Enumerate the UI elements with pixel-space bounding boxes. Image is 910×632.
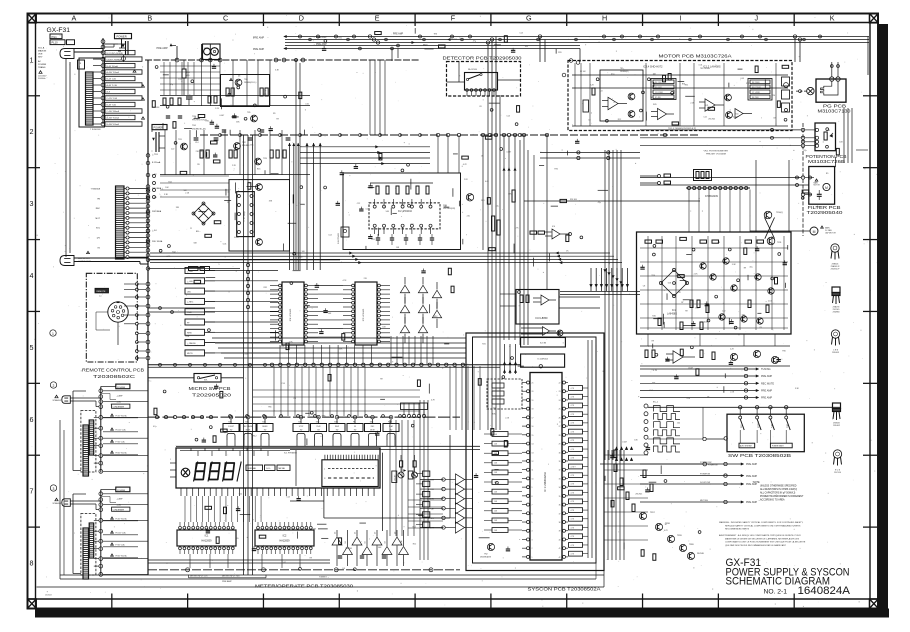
svg-text:31: 31 <box>559 461 561 463</box>
svg-text:R9: R9 <box>276 119 278 121</box>
svg-text:C22: C22 <box>171 148 174 150</box>
svg-text:MOTOR PCB M3103C726A: MOTOR PCB M3103C726A <box>659 53 733 58</box>
pg pcb box <box>816 79 846 102</box>
svg-text:2SA562-R: 2SA562-R <box>831 265 840 268</box>
syscon left small boxes <box>492 432 508 437</box>
svg-text:2: 2 <box>53 384 55 388</box>
pg pcb top pins <box>830 77 834 81</box>
svg-text:TR6: TR6 <box>651 275 655 277</box>
svg-text:C22: C22 <box>357 203 360 205</box>
capstan motor note <box>821 226 824 228</box>
svg-text:LA-B09+9608A(B): LA-B09+9608A(B) <box>107 58 123 61</box>
svg-text:RA 197094: RA 197094 <box>468 68 477 71</box>
svg-text:R9: R9 <box>197 164 199 166</box>
wires regulator cluster <box>160 95 310 97</box>
svg-text:REMOTE: REMOTE <box>97 291 107 293</box>
svg-text:D8: D8 <box>385 541 387 543</box>
svg-text:MUTE: MUTE <box>246 429 251 431</box>
svg-text:2SD663: 2SD663 <box>832 352 839 354</box>
svg-text:0.01: 0.01 <box>186 336 190 338</box>
svg-text:TR17: TR17 <box>650 512 655 514</box>
svg-text:2SD 1204A: 2SD 1204A <box>152 240 163 243</box>
svg-text:0.01: 0.01 <box>485 181 489 183</box>
grid tick bottom <box>338 594 340 609</box>
grid tick bottom <box>414 594 416 609</box>
display bottom pin comb <box>180 488 182 496</box>
wires y=201 right <box>524 200 700 202</box>
svg-text:C PLAY: C PLAY <box>428 507 435 510</box>
grid tick bottom <box>490 594 492 609</box>
corner registration mark <box>870 14 879 23</box>
svg-text:VDE: VDE <box>38 54 43 56</box>
svg-text:ALL CAPACITORS IN µF 50WV(J): ALL CAPACITORS IN µF 50WV(J) <box>760 492 795 495</box>
svg-text:37: 37 <box>559 513 561 515</box>
wires to bus 3 <box>103 493 148 495</box>
svg-text:7: 7 <box>532 505 533 507</box>
svg-text:C14: C14 <box>195 142 198 144</box>
svg-text:TRANS: TRANS <box>38 66 46 69</box>
svg-text:0.01: 0.01 <box>768 301 772 303</box>
component value annotations zone B1 <box>173 122 176 129</box>
svg-text:PRE AMP: PRE AMP <box>157 47 168 50</box>
extra wires regulator <box>160 65 220 67</box>
border band line top <box>28 22 879 24</box>
detector relay box <box>465 73 498 91</box>
filter warning note inside <box>815 179 818 181</box>
IC2 top resistors <box>376 186 379 194</box>
grid tick top <box>642 14 644 27</box>
scan black bar right <box>878 24 889 609</box>
driver IC4 <box>282 282 304 345</box>
IC2 outer box <box>343 173 461 250</box>
svg-text:14: 14 <box>532 444 534 446</box>
svg-text:C8: C8 <box>759 327 761 329</box>
syscon inner box <box>473 337 597 563</box>
motor transistor TR1 <box>628 93 635 100</box>
svg-text:SW PCB T20308502B: SW PCB T20308502B <box>728 453 791 458</box>
svg-text:C8: C8 <box>643 286 645 288</box>
svg-text:MUTING: MUTING <box>700 500 708 502</box>
svg-text:42: 42 <box>559 557 561 559</box>
svg-text:220: 220 <box>235 538 238 540</box>
svg-text:REC MUTE: REC MUTE <box>761 383 774 386</box>
grid tick top <box>338 14 340 27</box>
svg-text:PRE AMP: PRE AMP <box>761 397 772 400</box>
svg-text:2SD880(B,P): 2SD880(B,P) <box>480 556 492 558</box>
transistor package 2SB632 <box>833 403 841 409</box>
svg-text:F8 6V 700mA: F8 6V 700mA <box>116 555 128 558</box>
wires filter <box>640 177 801 179</box>
syscon left entry wires <box>420 479 444 481</box>
motor resistor stack 2 <box>748 79 772 101</box>
svg-text:17: 17 <box>532 417 534 419</box>
wires below drivers <box>189 554 191 568</box>
svg-text:SOL A: SOL A <box>38 47 45 50</box>
svg-text:6: 6 <box>532 513 533 515</box>
svg-text:R1 10K: R1 10K <box>580 71 587 73</box>
bus junctions y=365 <box>270 363 273 366</box>
svg-text:2: 2 <box>532 548 533 550</box>
servo transistors <box>700 263 706 269</box>
svg-text:ALL RESISTORS IN OHMS 1/4W(J): ALL RESISTORS IN OHMS 1/4W(J) <box>760 488 797 491</box>
svg-text:CONDENSER: CONDENSER <box>113 509 125 511</box>
motor opamp IC3b <box>658 108 667 119</box>
syscon IC3 box lower <box>521 354 565 367</box>
svg-text:PRE AMP: PRE AMP <box>761 390 772 393</box>
motor right circles <box>784 83 789 88</box>
svg-text:B+2V 1.2A: B+2V 1.2A <box>107 78 117 81</box>
capacitor C12 <box>186 96 193 98</box>
power int row <box>600 463 703 465</box>
svg-text:LA6458S: LA6458S <box>667 313 677 316</box>
IC2 bottom caps <box>376 237 380 239</box>
pg head circle <box>807 87 814 94</box>
IC2 pin circles <box>373 205 376 208</box>
svg-text:C22: C22 <box>703 117 706 119</box>
svg-text:NO. 2-1: NO. 2-1 <box>764 588 788 595</box>
syscon right verticals <box>587 340 589 558</box>
warning triangle 2 <box>55 395 58 398</box>
sw pcb label boxes <box>739 443 755 448</box>
grid tick right <box>863 526 877 528</box>
svg-text:0.047: 0.047 <box>298 256 303 258</box>
wire plug P2 to bus <box>74 257 148 259</box>
svg-text:M: M <box>825 186 828 190</box>
svg-text:IC3 L8050: IC3 L8050 <box>536 316 549 320</box>
servo bridge <box>661 270 687 296</box>
svg-text:A: A <box>72 14 77 23</box>
svg-text:R31: R31 <box>206 121 209 123</box>
syscon main IC1 LM6402 <box>530 373 562 561</box>
svg-text:ACCORDING TO AREA: ACCORDING TO AREA <box>760 499 785 502</box>
svg-text:19: 19 <box>532 400 534 402</box>
mid bus bundle left <box>150 252 560 254</box>
wires bottom row3 <box>148 259 340 261</box>
svg-text:0.01: 0.01 <box>181 146 185 148</box>
svg-text:REW: REW <box>187 333 192 335</box>
svg-text:C7 +220R: C7 +220R <box>752 92 760 94</box>
output rows to pre amp lower <box>640 463 742 465</box>
svg-text:TR3 2SD880: TR3 2SD880 <box>700 68 710 70</box>
svg-text:FF: FF <box>354 426 356 428</box>
scan black bar bottom <box>35 609 889 618</box>
svg-text:2SA733: 2SA733 <box>833 306 840 309</box>
svg-text:→ PRE AMP: → PRE AMP <box>313 43 327 46</box>
svg-text:IC1: IC1 <box>205 535 209 538</box>
meter input bracket <box>189 577 267 579</box>
syscon IC3 box upper <box>521 338 566 348</box>
wire net vertical drops from switch row <box>227 447 229 449</box>
long bus y=365 <box>148 364 521 366</box>
remote wires to DIN <box>124 283 135 285</box>
svg-text:D10: D10 <box>401 540 403 543</box>
svg-text:39: 39 <box>559 531 561 533</box>
warning triangle P2 <box>87 251 90 253</box>
svg-text:2SC945: 2SC945 <box>196 151 203 153</box>
grid tick bottom <box>187 594 189 609</box>
svg-text:F6 12V 1.2A: F6 12V 1.2A <box>116 532 127 535</box>
resistors near op amp <box>530 231 537 234</box>
svg-text:2SD880: 2SD880 <box>833 312 840 314</box>
svg-text:220: 220 <box>493 407 496 409</box>
meter driver IC1 <box>177 530 236 546</box>
svg-text:R9: R9 <box>273 113 275 115</box>
sw pcb entry wire <box>648 407 703 439</box>
labels column 2 <box>111 414 114 416</box>
display divider <box>295 450 297 486</box>
diode buffer row <box>336 530 338 537</box>
transistor TR4 <box>235 79 242 86</box>
wire plug P1 to transformer <box>74 48 103 50</box>
border band line right <box>869 23 871 600</box>
extra caps B2 <box>166 115 170 117</box>
svg-text:TR1: TR1 <box>620 68 623 70</box>
svg-text:C8: C8 <box>718 242 720 244</box>
svg-text:G: G <box>526 14 532 23</box>
svg-text:A+36V 700mA: A+36V 700mA <box>107 117 120 120</box>
svg-text:0.047: 0.047 <box>733 117 738 119</box>
top bus junctions <box>368 35 371 38</box>
svg-text:PRE AMP: PRE AMP <box>746 483 757 486</box>
svg-text:41: 41 <box>559 548 561 550</box>
motor stage1 box <box>600 70 643 121</box>
svg-text:H: H <box>602 14 607 23</box>
svg-text:C14: C14 <box>328 234 331 236</box>
svg-text:△ AMP: △ AMP <box>117 395 124 398</box>
svg-text:2: 2 <box>30 127 34 136</box>
svg-text:6: 6 <box>30 415 34 424</box>
svg-text:J-1: J-1 <box>99 296 102 298</box>
svg-text:POWER: POWER <box>38 64 47 66</box>
syscon buffer triangles <box>456 474 465 485</box>
grid tick top <box>414 14 416 27</box>
svg-text:F5 6V 700mA: F5 6V 700mA <box>116 415 128 418</box>
IC3 wires <box>500 293 516 295</box>
riser arrows up H5 <box>615 447 617 450</box>
svg-text:WARNING : INDICATED SAFETY CRI: WARNING : INDICATED SAFETY CRITICAL COMP… <box>719 521 804 524</box>
svg-text:5: 5 <box>30 343 34 352</box>
IC5 resistor trio <box>694 170 712 181</box>
wire net right of display <box>389 420 391 536</box>
svg-text:C14: C14 <box>506 115 509 117</box>
svg-text:B COUNT+9608(B): B COUNT+9608(B) <box>107 53 124 55</box>
wire CN1 top to bus <box>102 38 104 42</box>
svg-text:R31: R31 <box>371 239 374 241</box>
svg-text:220: 220 <box>364 278 367 280</box>
potention trimmer symbol <box>824 132 827 140</box>
servo left risers <box>604 150 606 460</box>
svg-text:5: 5 <box>532 522 533 524</box>
wire net left of switch row <box>253 389 420 391</box>
svg-text:POWER: POWER <box>117 35 127 39</box>
svg-text:1: 1 <box>52 332 54 336</box>
bus junction <box>146 211 150 215</box>
svg-text:D6: D6 <box>365 541 367 543</box>
svg-text:TR6: TR6 <box>268 406 272 408</box>
svg-text:D4: D4 <box>345 541 347 543</box>
sub power box <box>341 227 349 237</box>
svg-text:A+36V 700mA: A+36V 700mA <box>107 71 120 74</box>
svg-text:TR20: TR20 <box>689 544 694 546</box>
horizontal bus y=60 <box>145 59 420 61</box>
circled number 2 <box>50 382 56 388</box>
svg-text:IC4 UCN105: IC4 UCN105 <box>290 308 292 321</box>
sw pcb box <box>727 414 804 452</box>
svg-text:12: 12 <box>532 461 534 463</box>
svg-text:HA12009: HA12009 <box>202 540 213 543</box>
rec label box <box>408 471 413 479</box>
svg-text:1: 1 <box>532 557 533 559</box>
svg-text:IC2 µPD2044: IC2 µPD2044 <box>398 211 413 213</box>
svg-text:25: 25 <box>559 409 561 411</box>
svg-text:38: 38 <box>559 522 561 524</box>
svg-text:PRE AMP: PRE AMP <box>746 501 757 504</box>
svg-text:27: 27 <box>559 426 561 428</box>
svg-text:△ AMP: △ AMP <box>117 498 124 501</box>
svg-text:F: F <box>451 14 456 23</box>
svg-text:A+8: A+8 <box>107 91 110 94</box>
svg-text:PRE AMP: PRE AMP <box>253 37 264 40</box>
svg-text:0.01: 0.01 <box>305 103 309 105</box>
bundle arrowheads mid <box>350 252 352 254</box>
digit select hooks <box>180 450 290 452</box>
svg-text:MICRO SW PCB: MICRO SW PCB <box>189 386 231 391</box>
svg-text:A+6V 7L.2A: A+6V 7L.2A <box>107 84 118 87</box>
svg-text:M: M <box>813 230 816 234</box>
transistor package 2SB605 <box>831 244 839 252</box>
svg-text:C22: C22 <box>239 494 242 496</box>
bridge rectifier D1 <box>194 204 214 224</box>
pg pickup coil <box>821 81 838 95</box>
detector wires <box>447 81 465 83</box>
svg-text:4: 4 <box>532 531 533 533</box>
component value annotations zone below display <box>318 528 328 530</box>
transistor TR10 TR11 cross pair <box>764 211 772 219</box>
display lower frame lines <box>323 488 325 518</box>
wire net display risers <box>184 496 186 522</box>
LED indicator D10 <box>398 472 404 478</box>
switch modules row <box>229 415 233 419</box>
svg-text:F8 6V 700mA: F8 6V 700mA <box>116 452 128 455</box>
plug 3 <box>62 499 71 507</box>
wire net centre risers to syscon <box>449 366 451 430</box>
wire plug 3 <box>70 500 101 502</box>
corner registration mark <box>28 599 37 608</box>
wires to risers <box>289 143 291 270</box>
display dashed rows <box>328 468 374 470</box>
lower power boxes <box>189 267 199 271</box>
svg-text:IC 1 LM640220H: IC 1 LM640220H <box>543 472 547 492</box>
svg-text:R9: R9 <box>380 378 382 380</box>
svg-text:IC 1000µ: IC 1000µ <box>244 210 246 219</box>
svg-text:△ LED: △ LED <box>187 280 194 283</box>
svg-text:C14: C14 <box>401 204 404 206</box>
svg-text:D4: D4 <box>600 91 602 93</box>
grid tick top <box>490 14 492 27</box>
grid tick bottom <box>793 594 795 609</box>
motor resistor stack 1 <box>651 79 676 100</box>
component value annotations zone syscon <box>495 481 498 484</box>
display mode label boxes <box>246 465 263 471</box>
bus junction circles row3 <box>146 154 150 158</box>
syscon bus taps <box>504 344 506 374</box>
connector PG1 label box <box>50 34 62 39</box>
svg-text:MAIN: MAIN <box>825 227 830 230</box>
left margin vertical pair <box>65 59 67 258</box>
motor wires <box>572 74 788 76</box>
connector outline 2 <box>81 411 96 473</box>
wires micro sw <box>148 377 194 379</box>
remote control PCB box <box>86 273 137 362</box>
svg-text:0.047: 0.047 <box>622 441 627 443</box>
grid tick top <box>793 14 795 27</box>
IC3 L8050 box <box>516 290 559 325</box>
svg-text:PRE-SET VOLTAGE: PRE-SET VOLTAGE <box>706 152 727 155</box>
IC2 wire drops from top bus <box>369 60 371 135</box>
svg-text:C14: C14 <box>286 497 289 499</box>
motor opamp IC1 <box>705 99 715 111</box>
junction dots bus y=365 <box>159 363 162 366</box>
meter bus line <box>148 569 460 571</box>
svg-text:PRE AMP: PRE AMP <box>746 475 757 478</box>
svg-text:PL10: PL10 <box>52 41 59 45</box>
POWER box 2 <box>116 384 130 389</box>
svg-text:D7: D7 <box>375 532 377 534</box>
svg-text:F6 12V 1.2A: F6 12V 1.2A <box>116 429 127 432</box>
svg-text:R31: R31 <box>264 287 267 289</box>
regulator stage box <box>221 75 270 107</box>
svg-text:CONDENSER: CONDENSER <box>113 406 125 408</box>
waveform traces <box>654 406 681 412</box>
regulator IC column <box>237 192 255 237</box>
connector CN2 pin circles <box>126 187 129 190</box>
svg-text:2SC945: 2SC945 <box>345 548 352 550</box>
svg-text:TR19: TR19 <box>677 535 682 537</box>
svg-text:△ TR1: △ TR1 <box>152 153 159 156</box>
motor pcb dashed box <box>568 61 792 131</box>
svg-text:T202905020: T202905020 <box>192 392 232 397</box>
svg-text:BR₁₂₁: BR₁₂₁ <box>196 231 201 233</box>
svg-text:220: 220 <box>467 215 470 217</box>
svg-text:50/60Hz: 50/60Hz <box>38 78 45 80</box>
svg-text:← REC: ← REC <box>420 45 428 47</box>
svg-text:D3: D3 <box>335 532 337 534</box>
svg-text:TR2: TR2 <box>484 554 488 556</box>
filter motor M1 <box>823 183 830 190</box>
wire plug 2 <box>70 397 101 399</box>
REMOTE label box <box>95 288 109 293</box>
svg-text:SUB POWER: SUB POWER <box>338 232 340 244</box>
extra centre verticals <box>519 140 521 345</box>
left riser bundle center <box>243 135 245 575</box>
svg-text:B+6V 7.2A: B+6V 7.2A <box>107 104 117 107</box>
svg-text:2SD880(PL/F): 2SD880(PL/F) <box>244 82 256 84</box>
display segment comb top <box>324 455 326 460</box>
capacitor marks row <box>194 137 199 139</box>
bus junction <box>146 173 150 177</box>
main vertical bus line x=148 <box>147 60 149 575</box>
component value annotations zone top bus <box>359 47 362 50</box>
svg-text:SPEAKER: SPEAKER <box>53 399 62 402</box>
meter bus junctions <box>186 568 190 572</box>
svg-text:2SD462: 2SD462 <box>833 425 840 427</box>
main junction column 2 <box>99 389 103 393</box>
micro switch box <box>194 374 221 383</box>
syscon outer box <box>466 333 604 571</box>
svg-text:R9: R9 <box>652 341 654 343</box>
wires to bus 2 <box>103 390 148 392</box>
svg-text:SEV: SEV <box>38 57 43 59</box>
